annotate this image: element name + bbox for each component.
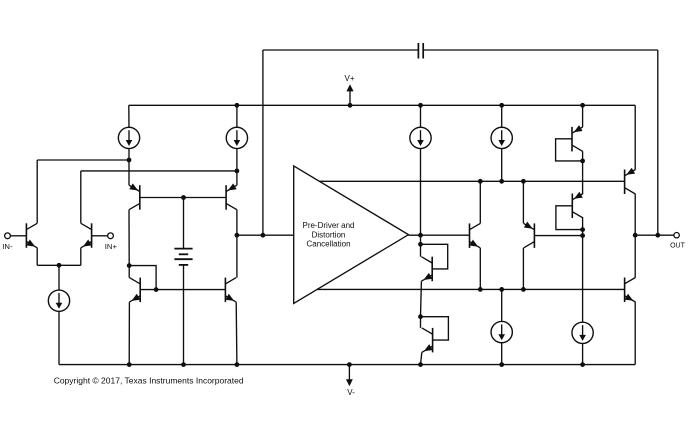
terminal OUT <box>635 233 685 250</box>
wire Q12 collector <box>582 218 584 230</box>
current source I6 <box>491 289 512 364</box>
wire Q10 collector <box>522 248 524 290</box>
wire Q13 collector <box>634 194 636 235</box>
wire pnp base link <box>140 197 226 199</box>
wire compensation left vertical <box>262 50 264 235</box>
transistor Q4 pnp <box>226 183 237 209</box>
junction Q5 diode node <box>127 263 132 268</box>
copyright note <box>54 375 244 385</box>
wire Q6 emitter <box>235 302 238 365</box>
node V+ <box>344 74 354 105</box>
wire Q7 emitter <box>420 281 423 317</box>
wire Q1 emitter <box>36 248 38 265</box>
wire Q11 to Q12 <box>582 161 584 194</box>
wire emitter join <box>37 264 81 266</box>
wire Q10 base <box>534 235 582 237</box>
transistor Q14 output npn <box>625 278 636 303</box>
wire V- rail <box>59 364 635 366</box>
wire Q9 collector <box>479 181 481 223</box>
transistor Q3 pnp <box>129 183 140 209</box>
junction Q2 collector node <box>235 169 240 174</box>
transistor Q2 <box>81 223 92 248</box>
current source I4 <box>410 105 431 244</box>
wire upper drive rail <box>319 180 624 182</box>
current source I7 <box>572 235 593 364</box>
terminal IN- <box>2 233 26 251</box>
svg-text:IN+: IN+ <box>105 242 118 251</box>
node V- <box>346 365 355 397</box>
wire V+ rail <box>129 104 635 106</box>
wire lower drive rail <box>317 288 624 290</box>
junction pnp base node <box>181 195 186 200</box>
wire Q5 emitter <box>128 302 130 365</box>
svg-text:Copyright © 2017, Texas Instru: Copyright © 2017, Texas Instruments Inco… <box>54 375 244 385</box>
wire Q1 collector <box>37 160 129 223</box>
wire Q2 collector <box>81 171 237 223</box>
junction Q12 node <box>580 227 585 232</box>
wire Q4 collector <box>236 210 238 278</box>
svg-text:IN-: IN- <box>2 242 13 251</box>
wire npn base link <box>140 289 225 291</box>
junction lower rail dots <box>478 287 526 292</box>
transistor Q11 diode pnp <box>572 125 583 151</box>
svg-text:Distortion: Distortion <box>312 230 346 239</box>
current source I3 <box>226 105 247 185</box>
wire Q13 emitter <box>634 105 636 169</box>
junction upper rail dots <box>478 179 526 184</box>
svg-text:Pre-Driver and: Pre-Driver and <box>302 221 354 230</box>
junction OUT node <box>633 233 660 238</box>
junction mid pnp base node <box>580 233 585 238</box>
junction Q1 collector node <box>127 158 132 163</box>
transistor Q5 <box>129 278 140 303</box>
transistor Q1 <box>26 223 37 248</box>
transistor Q13 output pnp <box>625 168 636 194</box>
svg-text:V-: V- <box>347 388 355 397</box>
wire Q12 node down <box>582 230 584 236</box>
svg-text:OUT: OUT <box>670 243 686 250</box>
wire Q14 emitter <box>634 302 636 365</box>
wire Q12 base loop <box>556 206 583 230</box>
op-amp A1 pre-driver block <box>294 166 409 304</box>
wire Q14 collector <box>634 235 636 277</box>
junction mid node C <box>418 314 423 319</box>
wire Q5 collector <box>128 266 130 278</box>
current source I2 <box>118 105 139 185</box>
wire Q11 base loop <box>556 139 583 161</box>
junction mid node B <box>418 242 423 247</box>
wire Q8 emitter <box>421 352 422 364</box>
junction compensation input node <box>235 233 266 238</box>
junction mid node A <box>418 233 423 238</box>
wire Q2 emitter <box>80 248 82 265</box>
capacitor C1 <box>263 43 658 59</box>
wire Q5 diode loop <box>129 266 156 290</box>
wire Q3 collector <box>128 210 130 266</box>
transistor Q10 pnp <box>524 222 535 248</box>
transistor Q12 diode pnp <box>572 192 583 218</box>
wire Q11 collector <box>582 151 584 161</box>
junction V+ rail dots <box>235 103 585 108</box>
wire Q10 emitter <box>522 181 524 223</box>
svg-text:V+: V+ <box>344 74 354 83</box>
wire tail <box>58 265 60 290</box>
wire Q7 diode loop <box>421 244 448 269</box>
wire Q8 collector <box>420 317 422 328</box>
junction Q11 node <box>580 159 585 164</box>
junction tail node <box>57 263 62 268</box>
transistor Q8 diode <box>422 328 433 353</box>
transistor Q6 <box>225 278 236 303</box>
wire Q11 emitter <box>582 105 584 127</box>
junction V- rail dots <box>127 362 585 367</box>
svg-text:Cancellation: Cancellation <box>306 240 350 249</box>
wire triangle output to mid column <box>409 234 470 236</box>
current source I5 <box>491 105 512 181</box>
wire Q8 diode loop <box>421 317 449 340</box>
transistor Q7 diode <box>421 257 432 282</box>
wire triangle input <box>237 234 294 236</box>
terminal IN+ <box>92 233 118 251</box>
battery V1 bias <box>174 198 192 365</box>
wire Q9 emitter <box>479 248 481 290</box>
junction Q5 base tie <box>154 287 159 292</box>
wire feedback right vertical <box>657 50 659 235</box>
current source I1 tail <box>48 290 69 365</box>
wire Q7 collector <box>420 244 422 256</box>
transistor Q9 <box>469 223 480 248</box>
